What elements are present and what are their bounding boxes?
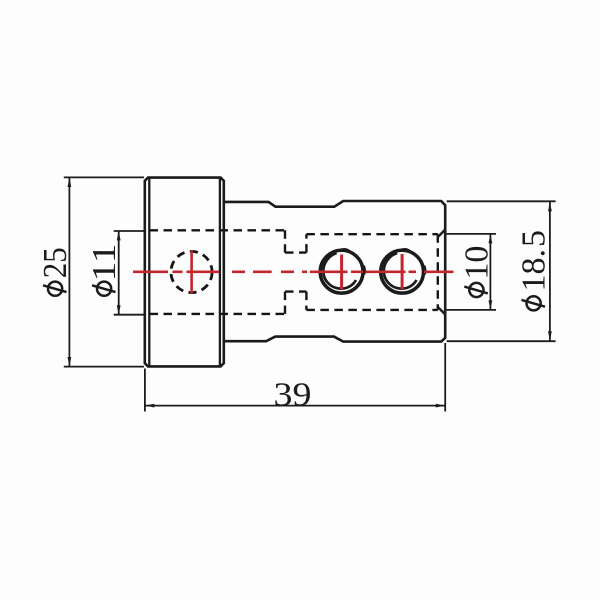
svg-text:39: 39 (274, 377, 312, 414)
label phi10 (459, 246, 496, 298)
hidden cross hole dashed circle (171, 251, 212, 292)
bore entry chamfer lines (438, 230, 445, 237)
spring pin 1 (320, 249, 364, 293)
label phi11 (86, 244, 123, 296)
flange inner right line (219, 178, 221, 367)
dimension phi11 (114, 231, 144, 315)
flange outer outline (145, 178, 224, 367)
body outline (224, 201, 445, 342)
hidden bore phi11 dashed (150, 230, 438, 314)
red centerline (133, 270, 454, 273)
svg-text:10: 10 (459, 246, 496, 280)
dimension 39 (145, 343, 445, 412)
red vertical cross lines (190, 251, 193, 294)
svg-text:5: 5 (516, 230, 553, 247)
label phi25 (37, 247, 74, 296)
svg-text:11: 11 (86, 244, 123, 282)
flange inner left line (148, 178, 150, 367)
label phi18.5 (516, 230, 553, 310)
svg-text:25: 25 (37, 247, 74, 278)
dimension phi25 (64, 177, 144, 366)
spring pin 2 (381, 249, 425, 293)
svg-text:18.: 18. (516, 249, 553, 292)
dimension phi18.5 (447, 201, 556, 341)
dimension phi10 (447, 234, 496, 310)
